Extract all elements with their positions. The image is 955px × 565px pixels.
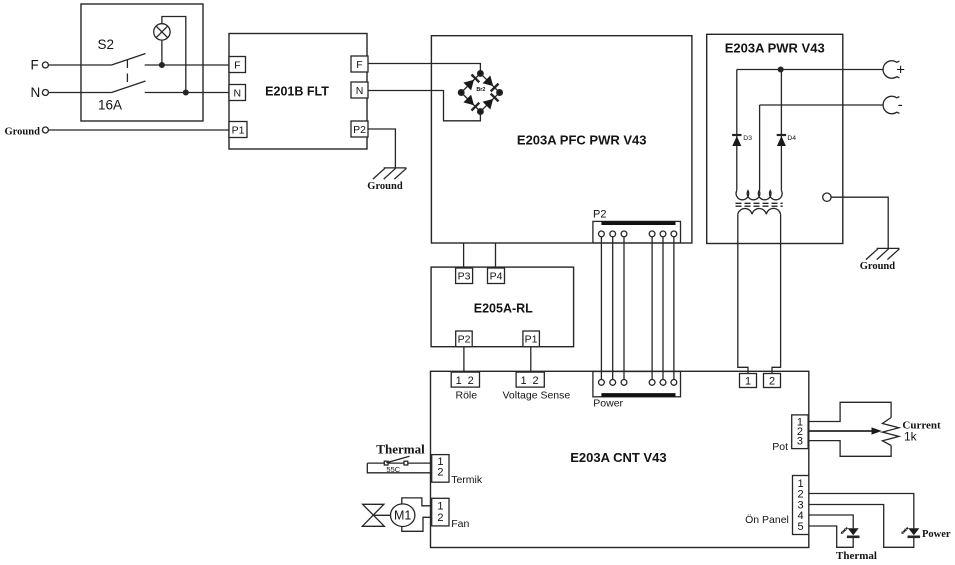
svg-text:E203A PWR V43: E203A PWR V43 <box>725 40 825 55</box>
svg-text:1: 1 <box>745 375 751 387</box>
control module E203A CNT V43 <box>431 371 809 547</box>
wire minus rail <box>760 104 884 106</box>
wire pin3 to Power LED cathode <box>809 505 914 548</box>
wire motor to Fan pin 1 <box>402 498 432 506</box>
filter module E201B FLT <box>229 34 367 150</box>
power module E203A PWR V43 <box>707 34 843 243</box>
svg-text:E205A-RL: E205A-RL <box>474 301 533 315</box>
wire Ground input to pin P1 <box>48 129 229 131</box>
switch S2 enclosure <box>81 4 203 121</box>
svg-text:2: 2 <box>468 375 474 387</box>
pin P3 <box>456 268 473 284</box>
thermal switch contact left <box>384 461 388 465</box>
ground symbol (E201B) <box>373 168 407 179</box>
svg-text:N: N <box>234 87 242 99</box>
thermal switch contact right <box>404 461 408 465</box>
pin P2 (RL bottom) <box>456 331 473 347</box>
switch gang link (dashed) <box>126 60 128 88</box>
svg-text:N: N <box>356 85 364 97</box>
wire switch F to pin F <box>145 64 229 66</box>
junction dot plus rail <box>778 67 783 72</box>
potentiometer wiper arrow <box>808 427 882 434</box>
svg-text:P1: P1 <box>525 334 538 346</box>
svg-text:2: 2 <box>437 512 443 524</box>
connector Power (CNT top) <box>593 372 681 397</box>
svg-text:P4: P4 <box>490 271 503 283</box>
wire primary 1 to CNT <box>738 214 748 373</box>
LED Thermal <box>841 528 860 537</box>
svg-text:Ground: Ground <box>860 261 896 272</box>
connector Role 1 2 <box>451 372 479 387</box>
diode D3 <box>732 135 741 146</box>
wire motor to Fan pin 2 <box>402 517 432 531</box>
wire D4 branch <box>780 70 782 191</box>
svg-text:P2: P2 <box>353 124 366 136</box>
pin N right <box>351 82 368 98</box>
svg-text:P2: P2 <box>458 334 471 346</box>
LED Power <box>901 528 920 537</box>
diode D4 <box>777 135 786 146</box>
svg-text:S2: S2 <box>98 37 115 52</box>
wire P2 to Role connector <box>463 347 465 372</box>
svg-text:F: F <box>234 59 240 71</box>
P2 pin circles <box>599 231 677 237</box>
pin 1 (CNT top) <box>740 374 757 388</box>
connector Pot 1 2 3 <box>792 415 808 449</box>
svg-text:Pot: Pot <box>772 441 788 453</box>
transformer secondary winding <box>736 191 782 200</box>
PFC power module E203A PFC PWR V43 <box>431 36 692 243</box>
wire P2 to ground <box>368 129 395 168</box>
connector P2 (PFC bottom) <box>593 221 681 243</box>
wire pin5 to Thermal LED cathode <box>809 526 853 547</box>
junction dot F-lamp <box>160 63 165 68</box>
wire N input to switch contact <box>48 92 111 94</box>
svg-text:2: 2 <box>769 375 775 387</box>
svg-text:Br2: Br2 <box>476 87 485 93</box>
junction dot N-lamp <box>183 90 188 95</box>
terminal N <box>42 90 48 96</box>
svg-text:E201B FLT: E201B FLT <box>265 84 329 98</box>
wire chassis to ground <box>831 197 888 248</box>
chassis terminal <box>823 193 831 201</box>
wires P2 to Power connector (6) <box>601 234 674 383</box>
connector Termik 1 2 <box>432 455 449 483</box>
wire center tap branch <box>759 105 761 191</box>
wire fan to motor <box>374 514 391 516</box>
wire pin4 to Thermal LED <box>809 515 853 528</box>
svg-text:N: N <box>31 85 41 100</box>
terminal minus <box>883 96 899 113</box>
connector On Panel 1-5 <box>793 476 809 535</box>
wire P1 to Voltage Sense connector <box>530 347 532 372</box>
wire primary 2 to CNT <box>772 214 781 373</box>
svg-text:3: 3 <box>797 435 803 447</box>
svg-text:1: 1 <box>521 375 527 387</box>
svg-text:Ön Panel: Ön Panel <box>745 514 789 526</box>
svg-text:55C: 55C <box>386 465 400 474</box>
svg-text:2: 2 <box>533 375 539 387</box>
svg-text:D3: D3 <box>743 135 752 142</box>
svg-text:F: F <box>356 59 362 71</box>
wire pin2 to Power LED <box>809 494 914 529</box>
pin 2 (CNT top) <box>764 374 781 388</box>
wire switch N to pin N <box>145 92 229 94</box>
svg-text:1k: 1k <box>904 430 918 444</box>
pin F left <box>229 57 246 73</box>
wire lamp bottom to F junction <box>161 40 163 65</box>
pin N left <box>229 85 246 101</box>
wire PFC to P3 <box>463 243 465 268</box>
svg-text:P2: P2 <box>593 208 606 220</box>
wire N pin to bridge bottom <box>368 91 480 121</box>
wire pot pin1 to resistor top <box>808 402 891 421</box>
svg-text:E203A CNT V43: E203A CNT V43 <box>570 450 666 465</box>
terminal Ground <box>42 127 48 133</box>
pin P1 (RL bottom) <box>523 331 540 347</box>
wire D3 branch <box>736 70 738 191</box>
svg-text:Ground: Ground <box>5 127 41 138</box>
svg-text:Power: Power <box>593 398 623 410</box>
svg-text:1: 1 <box>456 375 462 387</box>
ground symbol (PWR) <box>866 248 900 259</box>
transformer core <box>736 203 783 206</box>
svg-text:E203A PFC PWR V43: E203A PFC PWR V43 <box>517 132 647 147</box>
pin F right <box>351 56 368 72</box>
wire pot pin3 to resistor bottom <box>808 441 891 457</box>
motor M1 <box>391 504 415 527</box>
wire plus rail <box>737 69 883 71</box>
svg-text:P1: P1 <box>232 124 245 136</box>
svg-text:P3: P3 <box>458 271 471 283</box>
thermal switch return wire <box>367 463 431 473</box>
bridge rectifier Br2 <box>458 71 502 115</box>
svg-text:Power: Power <box>922 529 951 540</box>
svg-text:Thermal: Thermal <box>376 442 425 457</box>
wire lamp top to N junction <box>162 17 186 93</box>
pin P2 <box>351 121 368 137</box>
pin P4 <box>488 268 505 284</box>
wire PFC to P4 <box>495 243 497 268</box>
svg-text:Fan: Fan <box>451 518 469 530</box>
terminal F <box>42 62 48 68</box>
svg-text:F: F <box>31 57 39 72</box>
svg-text:Termik: Termik <box>451 474 483 486</box>
fan symbol <box>362 504 384 526</box>
wire F pin to bridge top <box>368 64 480 74</box>
switch blade F <box>112 54 146 66</box>
svg-text:16A: 16A <box>98 97 122 112</box>
thermal switch blade <box>387 456 410 462</box>
pin P1 <box>229 122 247 138</box>
svg-text:-: - <box>898 97 903 114</box>
terminal plus <box>883 61 899 78</box>
svg-text:M1: M1 <box>394 509 411 523</box>
svg-text:Voltage Sense: Voltage Sense <box>503 389 571 401</box>
Power pin circles <box>599 380 677 386</box>
connector Fan 1 2 <box>432 498 449 526</box>
switch blade N <box>112 81 146 93</box>
wire F input to switch contact <box>48 64 111 66</box>
thermal switch 55C wire top <box>367 462 431 464</box>
svg-text:+: + <box>896 62 905 79</box>
connector Voltage Sense 1 2 <box>516 372 544 387</box>
lamp indicator <box>154 24 170 40</box>
svg-text:2: 2 <box>437 466 443 478</box>
svg-text:1: 1 <box>437 501 443 513</box>
svg-text:D4: D4 <box>787 135 796 142</box>
svg-text:Röle: Röle <box>456 389 478 401</box>
relay module E205A-RL <box>431 267 573 347</box>
svg-text:5: 5 <box>798 521 804 533</box>
svg-text:Thermal: Thermal <box>836 550 877 562</box>
transformer primary winding <box>738 208 781 214</box>
potentiometer 1k resistor <box>882 418 899 446</box>
svg-text:Ground: Ground <box>367 181 403 192</box>
